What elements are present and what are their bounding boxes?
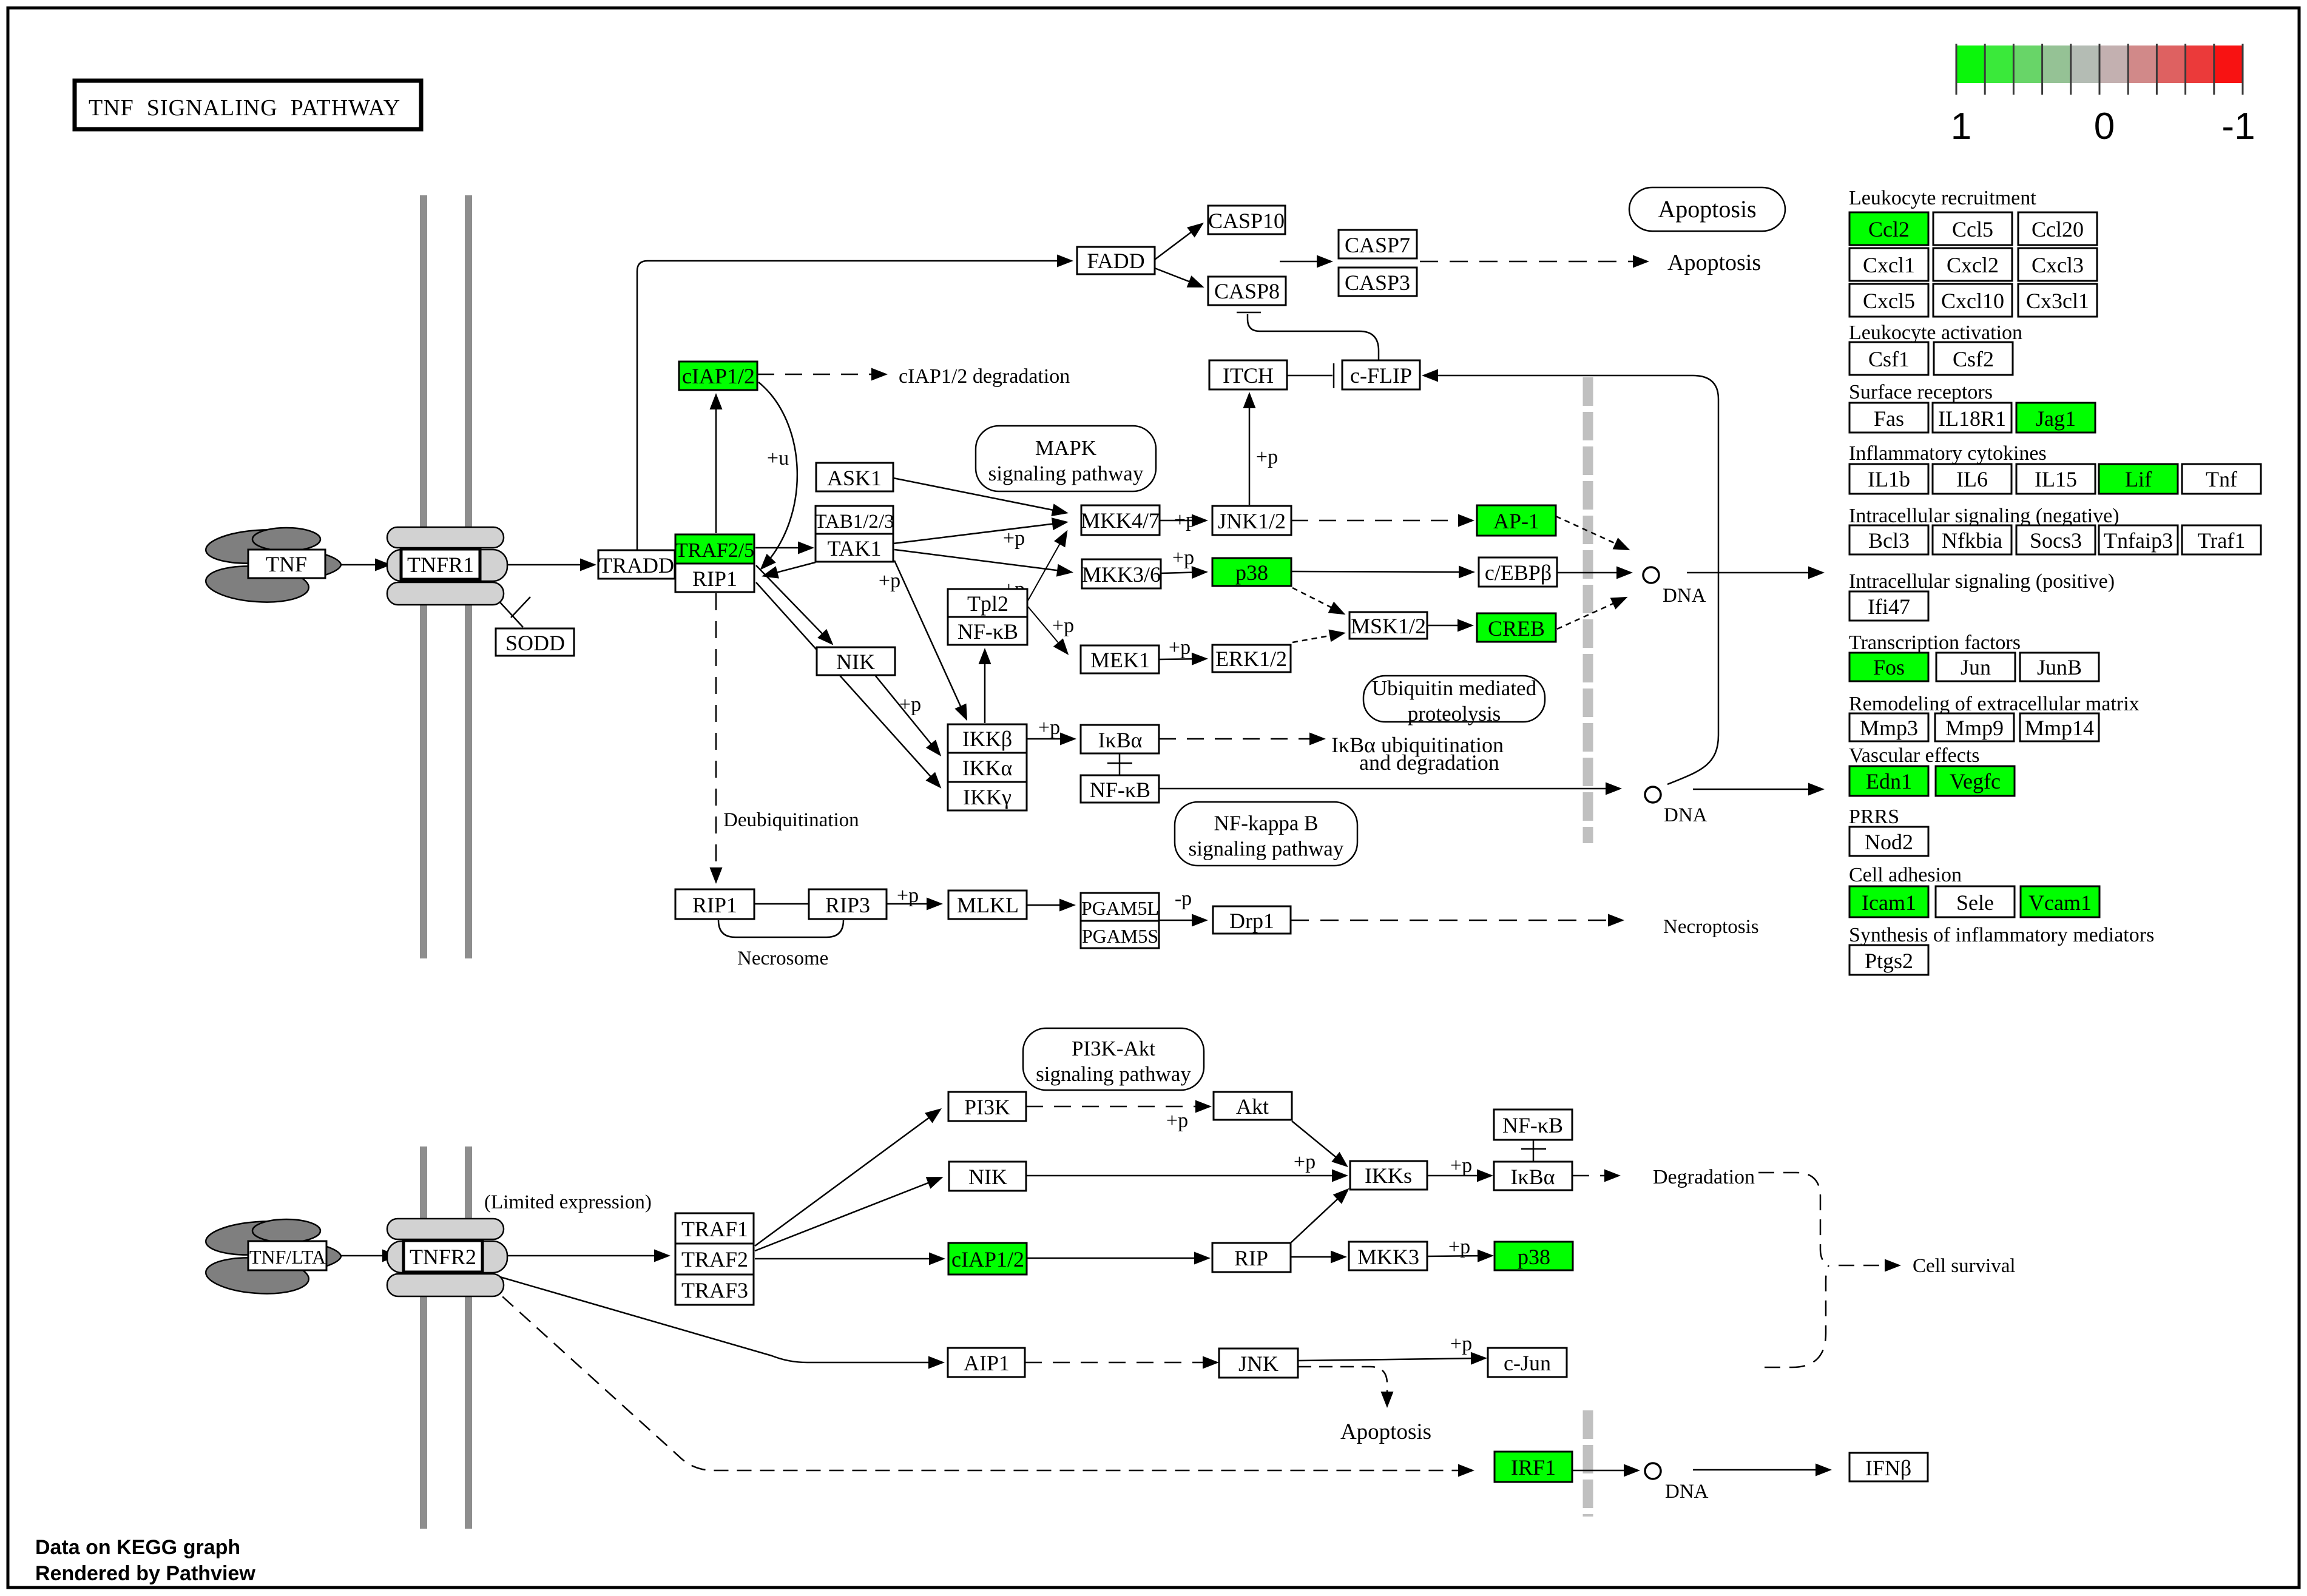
dashed brace from c-Jun side (bottom arm) bbox=[1765, 1265, 1829, 1367]
wire Tpl2 to MEK1 (+p) bbox=[1028, 607, 1067, 653]
gene box Nfkbia bbox=[1933, 525, 2011, 554]
gene box Edn1 bbox=[1849, 766, 1928, 796]
gene box MLKL bbox=[948, 891, 1027, 919]
svg-text:IL15: IL15 bbox=[2035, 467, 2077, 491]
gene box Vcam1 bbox=[2021, 886, 2099, 917]
wire IkBa to Degradation (dashed) bbox=[1572, 1175, 1618, 1177]
svg-text:Ubiquitin mediated: Ubiquitin mediated bbox=[1372, 676, 1537, 700]
svg-text:+p: +p bbox=[1169, 636, 1191, 659]
svg-text:Deubiquitination: Deubiquitination bbox=[723, 809, 859, 831]
svg-text:signaling pathway: signaling pathway bbox=[1189, 837, 1344, 861]
wire cIAP1/2 to RIP bbox=[1027, 1258, 1208, 1259]
wire TRAF2/5 to TAK1 bbox=[755, 547, 811, 549]
svg-text:Necrosome: Necrosome bbox=[737, 948, 828, 969]
gene box Fas bbox=[1849, 403, 1928, 433]
svg-text:Mmp3: Mmp3 bbox=[1860, 716, 1918, 740]
gene box Traf1 bbox=[2182, 525, 2261, 554]
svg-text:CREB: CREB bbox=[1488, 616, 1545, 641]
svg-text:Synthesis of inflammatory medi: Synthesis of inflammatory mediators bbox=[1849, 924, 2154, 946]
svg-text:Leukocyte activation: Leukocyte activation bbox=[1849, 322, 2022, 344]
gene box Fos bbox=[1849, 653, 1928, 681]
svg-text:Fas: Fas bbox=[1874, 406, 1904, 431]
svg-text:JunB: JunB bbox=[2037, 655, 2082, 679]
svg-text:+u: +u bbox=[767, 447, 789, 470]
gene box Csf1 bbox=[1849, 342, 1928, 375]
svg-text:IKKβ: IKKβ bbox=[962, 727, 1012, 751]
gene box CASP8 bbox=[1208, 277, 1286, 305]
svg-text:JNK1/2: JNK1/2 bbox=[1218, 509, 1286, 533]
svg-text:+p: +p bbox=[1003, 527, 1025, 550]
wire RIP1 - RIP3 bbox=[754, 903, 809, 905]
gene box FADD bbox=[1077, 247, 1155, 274]
svg-text:p38: p38 bbox=[1518, 1245, 1550, 1269]
svg-text:TRAF2/5: TRAF2/5 bbox=[675, 539, 754, 562]
svg-text:IL6: IL6 bbox=[1956, 467, 1988, 491]
inhibition T-bar at CASP8 bbox=[1237, 312, 1261, 314]
wire MLKL to PGAM5 bbox=[1027, 904, 1073, 906]
svg-text:Necroptosis: Necroptosis bbox=[1663, 916, 1759, 938]
gene box TNFR1 bbox=[401, 549, 480, 579]
TNFR1 receptor (light gray lobes) bbox=[387, 527, 507, 605]
wire JNK to c-Jun (+p) bbox=[1298, 1358, 1484, 1361]
wire NIK to IKKs (+p) bbox=[1026, 1175, 1345, 1177]
svg-text:Cxcl10: Cxcl10 bbox=[1941, 289, 2004, 313]
gene box AP-1 bbox=[1477, 505, 1556, 536]
svg-text:MEK1: MEK1 bbox=[1090, 648, 1150, 672]
gene box JNK bbox=[1219, 1349, 1298, 1378]
wire RIP1 to IKKgamma (+p diag) bbox=[756, 582, 939, 786]
gene box TNFR2 bbox=[404, 1241, 482, 1272]
pathway link oval PI3K-Akt signaling pathway bbox=[1023, 1028, 1204, 1090]
svg-text:Jun: Jun bbox=[1961, 655, 1991, 679]
TNF/LTA ligand trimer (dark ellipses) bbox=[204, 1218, 341, 1297]
svg-text:Cxcl2: Cxcl2 bbox=[1947, 253, 1999, 277]
wire IkBa to ubiquitination (dashed) bbox=[1159, 738, 1323, 740]
wire AP-1 to DNA (dashed) bbox=[1556, 516, 1627, 549]
wire IKKs to IkBa (+p) bbox=[1427, 1175, 1490, 1177]
gene box MKK3/6 bbox=[1082, 559, 1161, 588]
gene box RIP bbox=[1212, 1243, 1291, 1272]
dashed brace from Degradation (top arm) bbox=[1758, 1173, 1829, 1265]
gene box ASK1 bbox=[816, 463, 893, 491]
gene box c-FLIP bbox=[1342, 360, 1420, 389]
wire PI3K to Akt (dashed +p) bbox=[1026, 1106, 1209, 1108]
svg-text:Ptgs2: Ptgs2 bbox=[1865, 949, 1913, 973]
gene box cIAP1/2 (lower) bbox=[948, 1243, 1027, 1274]
gene box MKK4/7 bbox=[1081, 505, 1160, 535]
gene box IL6 bbox=[1933, 464, 2011, 494]
svg-text:Lif: Lif bbox=[2125, 467, 2152, 491]
wire TAK1 to IKKbeta bbox=[894, 561, 966, 718]
svg-text:RIP1: RIP1 bbox=[692, 567, 737, 591]
svg-text:Apoptosis: Apoptosis bbox=[1667, 250, 1761, 275]
gene box IL18R1 bbox=[1933, 403, 2011, 433]
gene box TAB1/2/3 bbox=[814, 506, 894, 534]
svg-text:Transcription factors: Transcription factors bbox=[1849, 631, 2021, 654]
svg-text:(Limited expression): (Limited expression) bbox=[484, 1191, 652, 1213]
svg-text:c-Jun: c-Jun bbox=[1504, 1351, 1551, 1375]
svg-text:Degradation: Degradation bbox=[1653, 1166, 1755, 1188]
X block mark on SODD line bbox=[511, 597, 530, 618]
gene box Bcl3 bbox=[1849, 525, 1928, 554]
gene box PGAM5L bbox=[1081, 893, 1159, 921]
title box TNF SIGNALING PATHWAY bbox=[75, 81, 421, 129]
svg-text:c-FLIP: c-FLIP bbox=[1350, 363, 1412, 388]
wire brace junction to Cell survival (dashed) bbox=[1839, 1265, 1898, 1267]
svg-text:RIP1: RIP1 bbox=[692, 893, 737, 917]
wire IKKbeta to IkBa (+p) bbox=[1027, 738, 1073, 740]
gene box JNK1/2 bbox=[1212, 506, 1291, 535]
gene box Csf2 bbox=[1934, 342, 2013, 375]
gene box Icam1 bbox=[1849, 886, 1928, 917]
svg-text:AIP1: AIP1 bbox=[964, 1351, 1010, 1375]
gene box Ptgs2 bbox=[1849, 945, 1928, 975]
svg-text:IL18R1: IL18R1 bbox=[1938, 406, 2006, 431]
svg-text:ERK1/2: ERK1/2 bbox=[1215, 647, 1287, 671]
gene box Ccl5 bbox=[1933, 212, 2012, 245]
svg-text:+p: +p bbox=[1256, 446, 1278, 468]
svg-text:+p: +p bbox=[899, 693, 921, 716]
svg-text:+p: +p bbox=[1052, 614, 1074, 637]
svg-text:Surface receptors: Surface receptors bbox=[1849, 381, 1993, 403]
wire CASP8 to CASP7/CASP3 bbox=[1280, 261, 1330, 263]
gene box Cxcl1 bbox=[1849, 248, 1928, 281]
svg-text:Ccl2: Ccl2 bbox=[1868, 217, 1910, 241]
wire DNA to intracellular signaling bbox=[1687, 572, 1822, 574]
svg-text:MLKL: MLKL bbox=[957, 893, 1019, 917]
gene box NF-kB (MAPK) bbox=[948, 617, 1027, 645]
wire RIP3 to MLKL (+p) bbox=[887, 903, 940, 905]
svg-text:ITCH: ITCH bbox=[1223, 363, 1274, 388]
gene box IL15 bbox=[2016, 464, 2095, 494]
svg-text:TAB1/2/3: TAB1/2/3 bbox=[814, 511, 894, 533]
svg-text:Tnf: Tnf bbox=[2206, 467, 2237, 491]
wire Akt to IKKs bbox=[1292, 1121, 1346, 1165]
svg-text:Leukocyte recruitment: Leukocyte recruitment bbox=[1849, 187, 2036, 209]
gene box IKKalpha bbox=[948, 753, 1027, 782]
gene box IKKbeta bbox=[948, 724, 1027, 753]
gene box Ifi47 bbox=[1849, 591, 1928, 621]
svg-text:proteolysis: proteolysis bbox=[1408, 702, 1501, 726]
wire PGAM5 to Drp1 (-p) bbox=[1159, 920, 1205, 921]
gene box Cxcl2 bbox=[1933, 248, 2012, 281]
wire JNK down to Apoptosis (dashed) bbox=[1298, 1367, 1387, 1405]
svg-text:TRAF2: TRAF2 bbox=[681, 1247, 748, 1271]
svg-text:0: 0 bbox=[2094, 106, 2115, 147]
svg-text:Vegfc: Vegfc bbox=[1950, 769, 2001, 793]
gene box IkBa (upper) bbox=[1081, 725, 1159, 753]
gene box ERK1/2 bbox=[1212, 645, 1291, 672]
wire CASP7/3 to Apoptosis (dashed) bbox=[1420, 261, 1646, 263]
gene box p38 (upper) bbox=[1212, 558, 1291, 586]
gene box TRAF3 bbox=[675, 1274, 754, 1305]
gene box cIAP1/2 bbox=[679, 362, 757, 390]
TNFR2 receptor (light gray lobes) bbox=[387, 1219, 507, 1296]
wire TRADD up-elbow to FADD bbox=[637, 261, 1070, 550]
svg-text:Csf2: Csf2 bbox=[1953, 347, 1994, 371]
svg-text:+p: +p bbox=[1450, 1154, 1472, 1177]
wire TNF to TNFR1 bbox=[325, 564, 388, 566]
svg-text:Data on KEGG graph: Data on KEGG graph bbox=[35, 1536, 240, 1559]
svg-text:IFNβ: IFNβ bbox=[1865, 1456, 1911, 1480]
wire TNFR2 to IRF1 (dashed) bbox=[485, 1281, 1471, 1470]
wire MKK3 to p38 (+p) bbox=[1427, 1256, 1491, 1256]
gene box RIP1 (necrosome) bbox=[675, 889, 754, 919]
svg-text:Vascular effects: Vascular effects bbox=[1849, 744, 1980, 767]
inhibition tie NF-kB to IkBa (lower) bbox=[1533, 1140, 1535, 1162]
svg-text:1: 1 bbox=[1951, 106, 1971, 147]
svg-text:IKKs: IKKs bbox=[1365, 1163, 1412, 1188]
gene box MEK1 bbox=[1081, 645, 1159, 673]
gene box c/EBPbeta bbox=[1479, 557, 1557, 587]
gene box NF-kB (lower) bbox=[1081, 775, 1159, 803]
gene box JunB bbox=[2020, 653, 2099, 681]
svg-text:Intracellular signaling (posit: Intracellular signaling (positive) bbox=[1849, 570, 2115, 593]
svg-text:-p: -p bbox=[1175, 887, 1192, 910]
gene box CASP10 bbox=[1208, 206, 1285, 234]
svg-text:MKK4/7: MKK4/7 bbox=[1081, 508, 1160, 533]
svg-text:Tpl2: Tpl2 bbox=[967, 591, 1008, 616]
wire MKK3/6 to p38 (+p) bbox=[1161, 572, 1205, 573]
gene box Tpl2 bbox=[948, 589, 1027, 617]
svg-text:Intracellular signaling (negat: Intracellular signaling (negative) bbox=[1849, 505, 2120, 527]
TNF ligand trimer (dark ellipses) bbox=[204, 527, 341, 605]
wire Tpl2 to MKK4/7 bbox=[1028, 533, 1066, 601]
gene box Tnf bbox=[2182, 464, 2261, 494]
svg-text:IL1b: IL1b bbox=[1868, 467, 1910, 491]
svg-text:Akt: Akt bbox=[1236, 1094, 1269, 1119]
svg-text:MSK1/2: MSK1/2 bbox=[1351, 614, 1426, 638]
DNA circle (IRF1 target) bbox=[1645, 1463, 1661, 1479]
DNA circle (NF-kB target) bbox=[1645, 787, 1661, 803]
wire FADD to CASP8 bbox=[1155, 268, 1201, 286]
wire ASK1 to MKK4/7 bbox=[893, 478, 1066, 513]
svg-text:MKK3: MKK3 bbox=[1357, 1245, 1419, 1269]
wire c/EBPbeta to DNA bbox=[1558, 572, 1630, 574]
svg-text:+p: +p bbox=[1174, 509, 1196, 531]
gene box CASP7 bbox=[1339, 230, 1417, 258]
gene box Drp1 bbox=[1213, 906, 1291, 934]
svg-text:NF-kappa B: NF-kappa B bbox=[1214, 812, 1318, 835]
svg-text:NF-κB: NF-κB bbox=[1090, 778, 1150, 802]
gene box AIP1 bbox=[948, 1348, 1025, 1377]
svg-text:Cell adhesion: Cell adhesion bbox=[1849, 864, 1962, 886]
svg-text:signaling pathway: signaling pathway bbox=[988, 462, 1144, 485]
svg-text:TAK1: TAK1 bbox=[827, 536, 881, 561]
color key gradient bar bbox=[1956, 44, 2243, 95]
gene box Jun bbox=[1936, 653, 2015, 681]
svg-text:Socs3: Socs3 bbox=[2030, 528, 2082, 553]
wire JNK1/2 up to ITCH (+p) bbox=[1249, 395, 1251, 505]
wire TNFR1 to SODD (blocked) bbox=[479, 580, 523, 627]
wire NIK to IKKalpha bbox=[875, 675, 939, 754]
gene box Nod2 bbox=[1849, 827, 1928, 856]
svg-text:Rendered by Pathview: Rendered by Pathview bbox=[35, 1562, 255, 1585]
gene box RIP1 bbox=[675, 564, 754, 592]
svg-text:Ccl5: Ccl5 bbox=[1952, 217, 1993, 241]
DNA circle (AP-1/CREB target) bbox=[1643, 567, 1659, 583]
gene box Socs3 bbox=[2016, 525, 2095, 554]
necrosome bracket bbox=[718, 920, 843, 937]
svg-text:+p: +p bbox=[1294, 1151, 1316, 1173]
wire Drp1 to Necroptosis (dashed) bbox=[1291, 920, 1621, 921]
svg-text:Edn1: Edn1 bbox=[1866, 769, 1912, 793]
gene box MSK1/2 bbox=[1349, 612, 1427, 639]
svg-text:RIP: RIP bbox=[1234, 1246, 1268, 1270]
gene box IL1b bbox=[1849, 464, 1928, 494]
wire MSK1/2 to CREB bbox=[1427, 625, 1471, 627]
nuclear membrane (upper, dashed) bbox=[1583, 377, 1593, 843]
gene box Mmp3 bbox=[1849, 713, 1928, 741]
svg-text:Apoptosis: Apoptosis bbox=[1658, 195, 1756, 223]
svg-text:c/EBPβ: c/EBPβ bbox=[1485, 561, 1552, 585]
gene box Sele bbox=[1936, 886, 2015, 917]
cell membrane (lower) bbox=[420, 1146, 472, 1529]
svg-text:CASP10: CASP10 bbox=[1208, 209, 1285, 233]
svg-text:RIP3: RIP3 bbox=[825, 893, 870, 917]
svg-text:TRAF3: TRAF3 bbox=[681, 1278, 748, 1302]
wire IKKbeta up to NF-kB bbox=[984, 651, 986, 723]
gene box Vegfc bbox=[1936, 766, 2015, 796]
svg-text:Sele: Sele bbox=[1956, 891, 1994, 915]
svg-text:+p: +p bbox=[879, 570, 900, 592]
wire RIP1 deubiquitination (dashed) bbox=[715, 593, 717, 881]
gene box PGAM5S bbox=[1081, 921, 1159, 948]
svg-text:TRADD: TRADD bbox=[599, 553, 674, 577]
wire c-FLIP inhibits CASP8 bbox=[1248, 314, 1379, 360]
svg-text:IKKα: IKKα bbox=[962, 756, 1013, 780]
svg-text:+p: +p bbox=[1448, 1236, 1470, 1258]
gene box IRF1 bbox=[1495, 1452, 1572, 1482]
wire RIP to IKKs bbox=[1291, 1190, 1347, 1242]
gene box Cxcl10 bbox=[1933, 284, 2012, 317]
wire TRAF2 to NIK bbox=[755, 1178, 941, 1251]
svg-text:signaling pathway: signaling pathway bbox=[1036, 1062, 1191, 1086]
svg-text:+p: +p bbox=[1172, 547, 1194, 569]
svg-text:PI3K-Akt: PI3K-Akt bbox=[1072, 1037, 1155, 1060]
svg-text:DNA: DNA bbox=[1664, 804, 1707, 826]
svg-text:AP-1: AP-1 bbox=[1493, 509, 1539, 533]
wire TRAF2 to cIAP1/2 bbox=[755, 1258, 942, 1260]
gene box NF-kB (bottom) bbox=[1494, 1109, 1572, 1140]
svg-text:NF-κB: NF-κB bbox=[1502, 1113, 1563, 1137]
svg-text:IKKγ: IKKγ bbox=[963, 785, 1012, 809]
svg-text:CASP3: CASP3 bbox=[1345, 271, 1410, 295]
svg-text:TNF: TNF bbox=[266, 552, 307, 576]
svg-text:+p: +p bbox=[1450, 1333, 1472, 1355]
wire TAK1 to MKK3/6 (+p) bbox=[894, 550, 1070, 572]
svg-text:p38: p38 bbox=[1235, 561, 1268, 585]
gene box Ccl20 bbox=[2018, 212, 2097, 245]
gene box IKKs bbox=[1350, 1161, 1427, 1190]
wire FADD to CASP10 bbox=[1155, 224, 1201, 260]
gene box TNF/LTA bbox=[248, 1241, 326, 1270]
gene box TRADD bbox=[598, 550, 675, 579]
gene box Lif bbox=[2099, 464, 2178, 494]
wire cIAP1/2 arc to RIP1 bbox=[758, 382, 797, 568]
svg-text:Ccl20: Ccl20 bbox=[2032, 217, 2084, 241]
svg-text:NIK: NIK bbox=[968, 1165, 1007, 1189]
wire AIP1 to JNK (dashed) bbox=[1025, 1362, 1216, 1364]
wire ERK1/2 to MSK1/2 (dashed) bbox=[1292, 633, 1343, 642]
gene box Jag1 bbox=[2016, 403, 2095, 433]
svg-text:ASK1: ASK1 bbox=[827, 466, 882, 490]
svg-text:FADD: FADD bbox=[1087, 249, 1144, 273]
svg-text:Icam1: Icam1 bbox=[1862, 891, 1916, 915]
gene box Cx3cl1 bbox=[2018, 284, 2097, 317]
gene box Mmp9 bbox=[1935, 713, 2014, 741]
svg-text:Mmp14: Mmp14 bbox=[2025, 716, 2094, 740]
svg-text:Nod2: Nod2 bbox=[1865, 830, 1913, 854]
gene box NIK (lower) bbox=[949, 1162, 1026, 1191]
wire CREB to DNA (dashed) bbox=[1557, 598, 1625, 629]
svg-text:JNK: JNK bbox=[1238, 1352, 1278, 1376]
gene box IkBa (bottom) bbox=[1494, 1162, 1572, 1190]
gene box CASP3 bbox=[1339, 268, 1417, 296]
gene box Cxcl3 bbox=[2018, 248, 2097, 281]
gene box TNF bbox=[248, 550, 325, 578]
svg-text:+p: +p bbox=[1166, 1109, 1188, 1132]
svg-text:CASP7: CASP7 bbox=[1345, 233, 1410, 257]
svg-text:Cxcl3: Cxcl3 bbox=[2032, 253, 2084, 277]
wire TNFR2 to TRAF1/2/3 bbox=[482, 1255, 667, 1257]
svg-text:Csf1: Csf1 bbox=[1868, 347, 1910, 371]
wire MEK1 to ERK1/2 (+p) bbox=[1159, 659, 1205, 659]
wire TNF/LTA to TNFR2 bbox=[326, 1255, 396, 1257]
svg-text:and degradation: and degradation bbox=[1359, 750, 1499, 775]
gene box p38 (lower) bbox=[1495, 1242, 1573, 1270]
inhibition T-bar at c-FLIP bbox=[1333, 363, 1335, 388]
svg-text:TRAF1: TRAF1 bbox=[681, 1217, 748, 1241]
svg-text:IκBα: IκBα bbox=[1510, 1165, 1555, 1189]
wire DNA to Edn1 row bbox=[1693, 789, 1822, 790]
svg-text:IRF1: IRF1 bbox=[1511, 1455, 1556, 1480]
svg-text:TNF SIGNALING PATHWAY: TNF SIGNALING PATHWAY bbox=[89, 95, 400, 121]
svg-text:TNF/LTA: TNF/LTA bbox=[249, 1246, 326, 1268]
inhibition tie IkBa to NF-kB bbox=[1119, 753, 1121, 775]
gene box TRAF2/5 bbox=[675, 534, 754, 564]
svg-text:Traf1: Traf1 bbox=[2198, 528, 2246, 553]
gene box PI3K bbox=[948, 1092, 1026, 1121]
svg-text:TNFR2: TNFR2 bbox=[410, 1245, 476, 1269]
svg-text:Vcam1: Vcam1 bbox=[2028, 891, 2092, 915]
gene box IKKgamma bbox=[948, 782, 1027, 810]
gene box TRAF2 bbox=[675, 1244, 754, 1274]
svg-text:DNA: DNA bbox=[1663, 585, 1706, 607]
gene box MKK3 bbox=[1349, 1242, 1427, 1270]
svg-text:SODD: SODD bbox=[505, 631, 565, 655]
svg-text:NF-κB: NF-κB bbox=[958, 619, 1018, 644]
svg-text:Bcl3: Bcl3 bbox=[1868, 528, 1910, 553]
svg-text:Mmp9: Mmp9 bbox=[1945, 716, 2004, 740]
wire ITCH inhibits c-FLIP bbox=[1287, 375, 1333, 377]
gene box SODD bbox=[496, 628, 574, 656]
svg-text:cIAP1/2: cIAP1/2 bbox=[951, 1247, 1024, 1271]
wire TAK1 to RIP1 bbox=[765, 562, 816, 576]
svg-text:IκBα: IκBα bbox=[1098, 728, 1142, 752]
gene box Mmp14 bbox=[2020, 713, 2099, 741]
gene box TAK1 bbox=[816, 534, 893, 562]
pathway link oval NF-kappa B signaling pathway bbox=[1175, 802, 1357, 866]
svg-text:Remodeling of extracellular ma: Remodeling of extracellular matrix bbox=[1849, 693, 2140, 715]
cell membrane (upper) bbox=[420, 195, 472, 958]
svg-text:Cxcl5: Cxcl5 bbox=[1863, 289, 1915, 313]
nuclear membrane (lower, dashed) bbox=[1583, 1410, 1593, 1517]
wire p38 to MSK1/2 (dashed) bbox=[1292, 588, 1343, 613]
gene box RIP3 bbox=[809, 889, 887, 919]
svg-text:Jag1: Jag1 bbox=[2036, 406, 2076, 431]
gene box IFNbeta bbox=[1849, 1453, 1928, 1481]
